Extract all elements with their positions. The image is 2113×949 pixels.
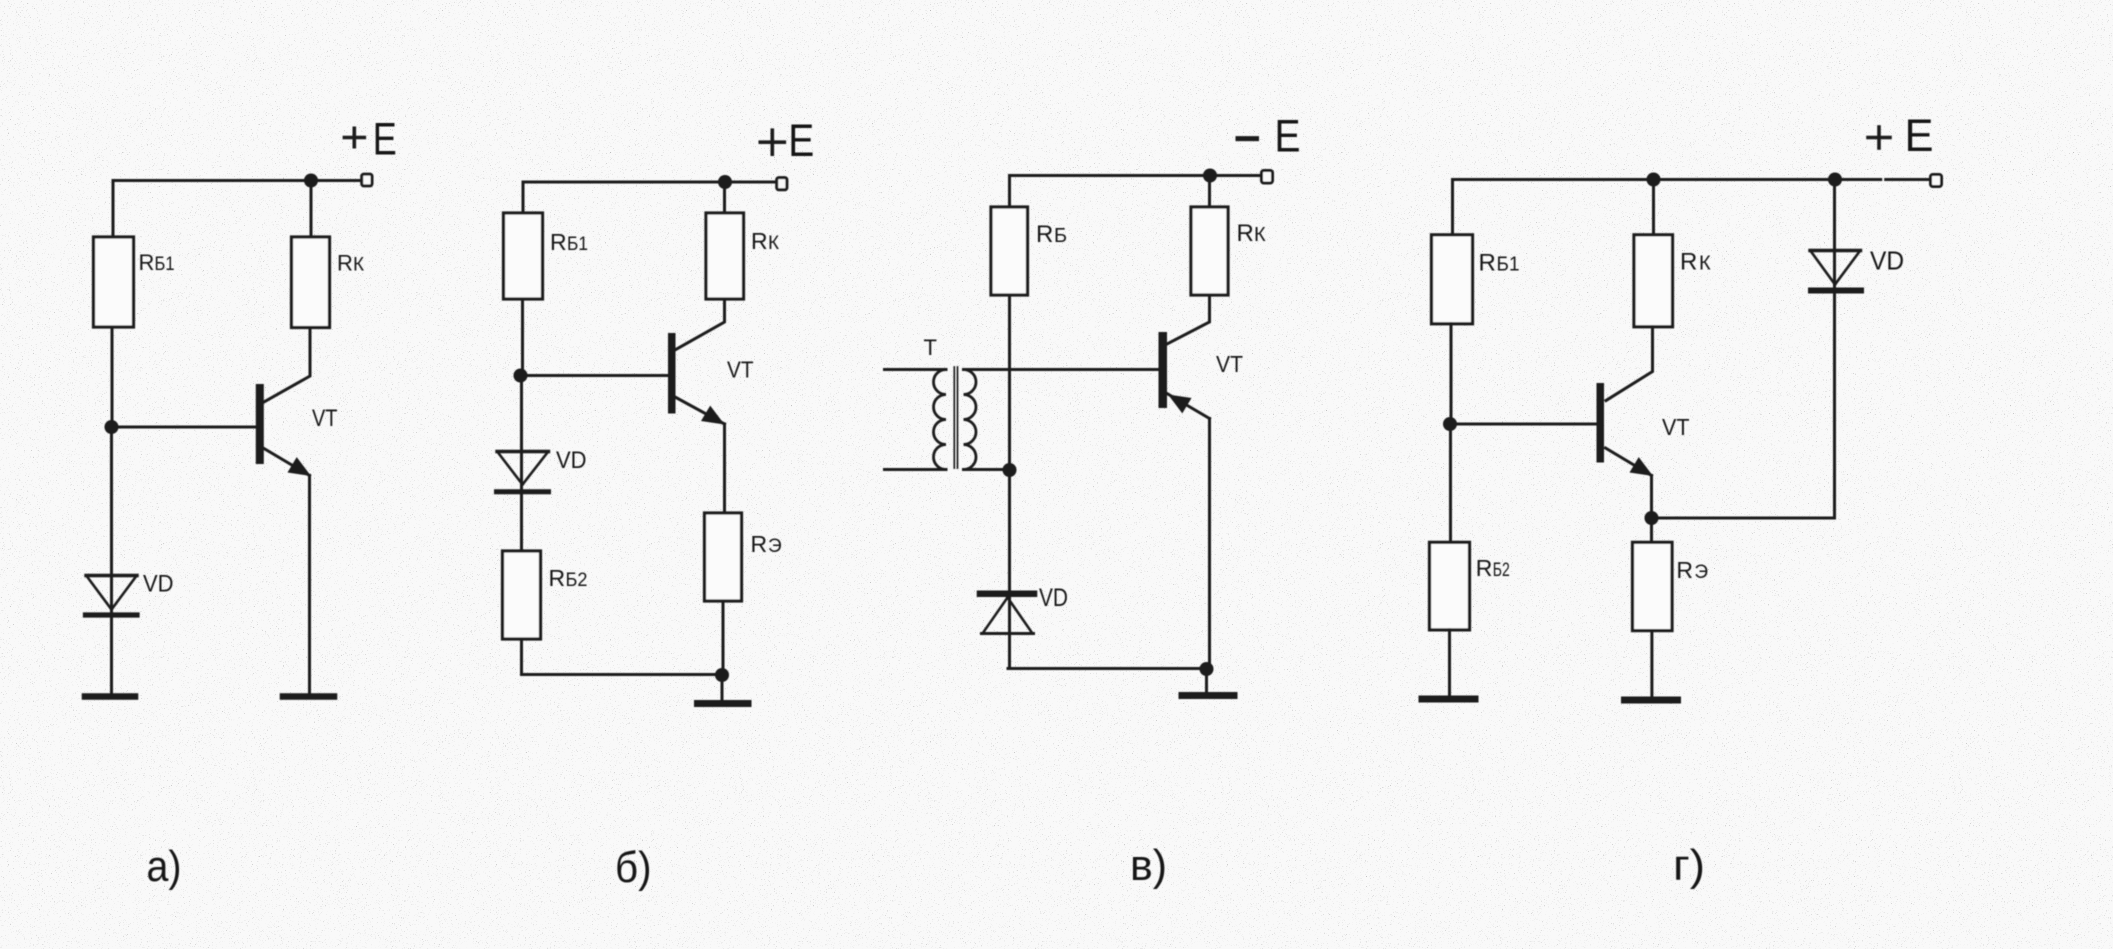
transistor VT (v) emitter with arrow (PNP, arrow toward base): [1167, 394, 1210, 419]
wire: rail to RB (v): [1008, 176, 1011, 208]
svg-text:в): в): [1130, 841, 1167, 890]
wire: rail to RK (g): [1652, 180, 1655, 235]
label RК (g): [1680, 249, 1711, 276]
resistor RК (a): [292, 237, 330, 328]
resistor RК (g): [1634, 235, 1673, 327]
svg-text:R: R: [549, 565, 566, 591]
resistor RБ2 (b): [503, 551, 541, 639]
resistor RЭ (g): [1633, 542, 1673, 630]
node: rail node (a): [304, 174, 318, 188]
label RБ1 (g): [1479, 250, 1520, 277]
label RЭ (b): [751, 531, 782, 557]
transformer T secondary winding: [964, 370, 977, 470]
svg-text:R: R: [139, 250, 155, 275]
svg-text:E: E: [788, 115, 814, 166]
wire: emitter to RE (b): [723, 424, 726, 513]
label RБ2 (g): [1476, 555, 1510, 581]
wire: base wire (g): [1450, 423, 1597, 426]
svg-text:К: К: [1699, 253, 1711, 275]
resistor RЭ (b): [705, 513, 742, 601]
diode VD (a): [86, 576, 138, 616]
transistor VT (g) base bar: [1597, 383, 1605, 463]
svg-text:Б1: Б1: [1497, 254, 1520, 276]
svg-text:Б1: Б1: [567, 234, 588, 255]
terminal +E (a): [362, 174, 372, 186]
svg-text:R: R: [751, 228, 768, 254]
svg-text:VD: VD: [1039, 584, 1068, 612]
svg-text:б): б): [615, 843, 652, 892]
svg-text:R: R: [1680, 249, 1697, 276]
wire: +E top rail (a): [113, 179, 361, 182]
label RБ2 (b): [549, 565, 588, 591]
svg-text:VT: VT: [312, 405, 338, 432]
ground (a, left): [85, 693, 135, 700]
svg-text:VD: VD: [143, 571, 174, 598]
wire: rail to RK (v): [1208, 176, 1211, 208]
resistor RБ (v): [991, 207, 1028, 295]
wire: RB2 to ground (g): [1448, 630, 1451, 696]
svg-text:VT: VT: [1216, 351, 1243, 377]
resistor RК (b): [706, 213, 744, 299]
transistor VT (b) base bar: [668, 333, 676, 414]
svg-text:VD: VD: [556, 447, 587, 474]
diode VD (b): [497, 452, 549, 492]
label +E (b): [760, 130, 784, 154]
wire: bottom rail (v): [1008, 667, 1207, 670]
wire: emitter to node (g): [1650, 476, 1653, 519]
transformer T primary bottom lead: [885, 468, 947, 471]
wire: emitter node to VD branch (g): [1652, 180, 1835, 519]
node: base node (a): [105, 420, 119, 434]
node: rail node above VD (g): [1828, 173, 1842, 187]
node: rail node (b): [718, 175, 732, 189]
label RБ (v): [1036, 221, 1067, 248]
ground (v): [1182, 692, 1234, 699]
wire: RK to collector (b): [675, 299, 725, 350]
wire: RK to collector (a): [264, 328, 310, 403]
wire: RB1 to base node (a): [111, 327, 114, 427]
svg-text:К: К: [353, 255, 364, 276]
wire: RK to collector (v): [1167, 295, 1210, 344]
svg-text:Б2: Б2: [566, 570, 588, 591]
svg-text:R: R: [1479, 250, 1496, 277]
svg-text:R: R: [550, 229, 567, 255]
label RК (v): [1237, 220, 1267, 247]
svg-text:R: R: [1036, 221, 1053, 248]
svg-text:E: E: [1905, 110, 1934, 161]
wire: +E top rail (g): [1453, 178, 1881, 181]
wire: base wire (b): [521, 374, 667, 377]
node: rail node above RK (g): [1647, 173, 1661, 187]
wire: secondary top lead / base wire (v): [964, 368, 1159, 371]
label -E (v): [1238, 136, 1257, 141]
node: base node (b): [514, 369, 528, 383]
wire: rail to RK (a): [310, 181, 313, 238]
transistor VT (a) base bar: [256, 384, 264, 464]
node: secondary-to-RB node (v): [1003, 463, 1017, 477]
transistor VT (a) emitter with arrow: [264, 449, 311, 477]
svg-text:R: R: [751, 531, 768, 557]
terminal +E (b): [777, 178, 787, 190]
wire: rail to RK (b): [723, 182, 726, 213]
wire: emitter node to RE (g): [1650, 518, 1653, 542]
wire: RB down through base crossing to zener (v): [1008, 295, 1011, 669]
label +E (g): [1868, 127, 1890, 148]
label RБ1 (b): [550, 229, 588, 255]
wire: base wire (a): [112, 426, 257, 429]
ground (g, right): [1625, 697, 1678, 704]
label +E (a): [344, 128, 364, 146]
node: emitter node (g): [1645, 511, 1659, 525]
svg-text:T: T: [924, 335, 937, 360]
node: base node (g): [1443, 417, 1457, 431]
transformer T primary top lead: [885, 368, 947, 371]
label RЭ (g): [1676, 557, 1708, 583]
svg-text:К: К: [1254, 224, 1266, 246]
svg-text:Э: Э: [1694, 562, 1708, 583]
wire: RE to ground (g): [1650, 631, 1653, 697]
wire: node to diode VD (b): [520, 376, 523, 552]
node: emitter/ground node (b): [715, 668, 729, 682]
wire: emitter to ground (a): [308, 476, 311, 695]
terminal -E (v): [1262, 171, 1273, 184]
node: rail node (v): [1203, 169, 1217, 183]
wire: emitter to bottom rail (v): [1208, 419, 1211, 669]
transistor VT (b) emitter with arrow: [675, 397, 725, 425]
svg-text:E: E: [1275, 111, 1301, 162]
resistor RБ1 (a): [94, 237, 134, 327]
wire: ground stub (v): [1205, 669, 1208, 692]
svg-text:R: R: [1676, 557, 1693, 583]
node: emitter/ground node (v): [1200, 662, 1214, 676]
wire: secondary bottom lead to node (v): [964, 468, 1010, 471]
resistor RБ2 (g): [1430, 542, 1470, 630]
resistor RБ1 (b): [504, 213, 543, 299]
svg-text:Э: Э: [768, 536, 782, 557]
svg-text:E: E: [373, 114, 397, 165]
wire: -E top rail (v): [1010, 174, 1263, 177]
wire: RK to collector (g): [1606, 327, 1653, 401]
svg-text:R: R: [1237, 220, 1254, 247]
label RБ1 (a): [139, 250, 175, 275]
label RК (a): [337, 251, 364, 276]
svg-text:R: R: [1476, 555, 1493, 581]
wire: RB2 to bottom rail (b): [520, 639, 523, 675]
svg-text:Б: Б: [1054, 225, 1067, 247]
svg-text:R: R: [337, 251, 353, 276]
wire: rail to RB1 (b): [522, 182, 525, 213]
transistor VT (v) base bar: [1159, 332, 1168, 408]
transformer T primary winding: [934, 370, 947, 470]
transistor VT (g) emitter with arrow: [1606, 448, 1654, 476]
svg-text:VD: VD: [1870, 246, 1904, 276]
wire: node to RB2 (g): [1449, 424, 1452, 542]
resistor RБ1 (g): [1432, 235, 1473, 324]
wire: rail to RB1 (a): [112, 181, 115, 238]
svg-text:г): г): [1673, 841, 1705, 890]
ground (a, right): [283, 693, 334, 700]
wire: ground stub (b): [721, 675, 724, 700]
ground (g, left): [1422, 696, 1475, 703]
wire: rail to RB1 (g): [1451, 180, 1454, 235]
wire: RB1 to base node (b): [521, 299, 524, 376]
ground (b): [698, 700, 749, 707]
label RК (b): [751, 228, 779, 254]
wire: node to diode VD (a): [110, 427, 113, 694]
svg-text:VT: VT: [1662, 414, 1690, 440]
wire: RB1 to base node (g): [1450, 324, 1453, 424]
wire: bottom rail (b): [522, 673, 723, 676]
svg-text:а): а): [147, 842, 182, 891]
svg-text:Б1: Б1: [155, 254, 175, 275]
wire: +E top rail (b): [523, 181, 777, 184]
svg-text:Б2: Б2: [1493, 560, 1510, 581]
svg-text:VT: VT: [727, 357, 754, 383]
resistor RК (v): [1191, 207, 1228, 295]
transformer T core: [954, 367, 957, 468]
terminal +E (g): [1931, 175, 1942, 187]
wire: RE to bottom rail (b): [722, 601, 725, 675]
svg-text:К: К: [768, 233, 779, 254]
zener diode VD (v): [980, 594, 1034, 634]
diode VD (g): [1810, 251, 1861, 291]
